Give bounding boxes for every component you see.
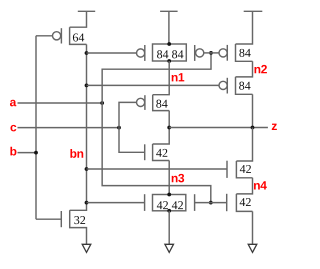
wire nmos pair source to ground: [168, 211, 170, 244]
wire a to top-right pmos bubble: [211, 52, 219, 54]
wire n1 to middle pmos source: [153, 61, 170, 95]
value 42 (bottom right): [240, 198, 251, 206]
nmos 32 gate wire: [36, 218, 61, 220]
value 84 84: [157, 50, 168, 58]
junction nmos pair drain: [167, 193, 171, 197]
middle pmos 84 gate bar: [144, 95, 146, 110]
wire middle pmos drain down to z and nmos: [153, 111, 170, 144]
junction b: [34, 151, 38, 155]
pmos 64 gate bubble: [53, 32, 61, 40]
wire a up-route to pmos gates: [102, 53, 211, 103]
nmos 32 gate bar: [60, 211, 62, 227]
junction nmos pair source: [167, 209, 171, 213]
label n4: [254, 181, 267, 189]
junction a nmos gates: [209, 201, 213, 205]
wire a to pmos pair right bubble: [204, 52, 211, 54]
lower-right pmos 84 gate bubble: [219, 81, 227, 89]
junction a: [100, 101, 104, 105]
node b vertical wire: [35, 36, 37, 219]
value 42 42: [157, 201, 168, 209]
junction c: [117, 126, 121, 130]
pmos pair 84-84 left gate bar: [144, 45, 146, 61]
wire b input: [18, 152, 37, 154]
pmos 64 channel (inverter pull-up): [70, 27, 87, 44]
value 42 (middle): [156, 149, 167, 157]
wire a to nmos pair right gate: [195, 202, 211, 204]
wire n2: [236, 61, 253, 77]
wire c down-route to middle nmos gate: [119, 128, 145, 153]
VDD rail T (right, above top-right pmos): [236, 11, 263, 44]
nmos 32 channel (inverter pull-down): [70, 210, 87, 244]
VDD rail T (middle, above pmos pair): [160, 11, 178, 44]
junction a pmos gates: [209, 51, 213, 55]
wire lower-right pmos drain to z: [252, 94, 254, 127]
nmos pair 42-42 left gate bar: [144, 194, 146, 211]
bottom-right nmos 42 channel: [236, 194, 252, 212]
junction pair source: [167, 42, 171, 46]
pmos 64 gate wire from b: [36, 35, 52, 37]
nmos pair 42-42 right gate bar: [194, 194, 196, 211]
ground (left): [82, 244, 91, 252]
middle pmos 84 channel: [153, 95, 170, 111]
wire a down-route to nmos gates: [102, 103, 211, 203]
top-right nmos 42 channel: [236, 161, 252, 178]
junction bn to right pmos 84 gate: [85, 84, 89, 88]
junction z left: [167, 126, 171, 130]
ground (right): [248, 244, 257, 252]
label n1: [172, 73, 185, 81]
wire n4: [236, 178, 252, 194]
pmos pair 84-84 right gate bubble: [196, 49, 204, 57]
wire c input: [18, 127, 120, 129]
value 42 (top right): [240, 165, 251, 173]
value 84 (lower right): [239, 82, 250, 90]
wire bn to nmos pair 42-42 left gate: [87, 202, 145, 204]
wire z output: [169, 127, 268, 129]
VDD rail T (left, above inverter PMOS): [70, 11, 96, 27]
wire z down to top-right nmos drain: [236, 128, 252, 162]
top-right nmos 42 gate bar: [226, 161, 228, 178]
value 84 (middle): [156, 100, 167, 108]
pmos 64 gate bar: [60, 28, 62, 43]
middle pmos 84 gate bubble: [137, 98, 145, 106]
value 32: [74, 216, 85, 224]
label n2: [254, 65, 266, 73]
top-right pmos 84 gate bubble: [219, 49, 227, 57]
wire bn to top-right nmos 42 gate: [87, 168, 228, 170]
wire bottom-right nmos source to ground: [252, 211, 254, 244]
top-right pmos 84 gate bar: [226, 45, 228, 61]
value 64: [73, 33, 84, 41]
nmos pair 42-42 channel box: [153, 195, 186, 211]
pmos pair 84-84 left gate bubble: [137, 49, 145, 57]
wire n3 (middle nmos source down to nmos pair): [168, 161, 170, 195]
junction z right: [251, 126, 255, 130]
junction pair drain (n1): [167, 59, 171, 63]
junction bn to 84-84 left gate: [85, 51, 89, 55]
middle nmos 42 gate bar: [144, 144, 146, 160]
label a: [10, 100, 16, 107]
wire bn column (64 drain down to nmos 32 drain): [70, 44, 87, 210]
pmos pair 84-84 right gate bar: [194, 45, 196, 61]
junction bn to top-right nmos 42 gate: [85, 167, 89, 171]
bottom-right nmos 42 gate bar: [226, 194, 228, 211]
wire c up-route to middle pmos gate: [119, 102, 137, 127]
junction bn to nmos pair left gate: [85, 201, 89, 205]
value 84 (top right): [239, 49, 250, 57]
label n3: [172, 174, 184, 183]
wire a input: [18, 102, 103, 104]
ground (middle): [165, 244, 174, 252]
label bn: [70, 149, 83, 158]
pmos pair 84-84 channel box: [153, 44, 187, 61]
middle nmos 42 channel: [153, 144, 170, 161]
lower-right pmos 84 gate bar: [226, 78, 228, 94]
wire bn to lower-right pmos 84 gate: [87, 84, 220, 86]
top-right pmos 84 channel: [236, 44, 253, 61]
wire a to bottom-right nmos gate: [211, 202, 227, 204]
label b: [10, 147, 16, 156]
label z: [272, 124, 277, 130]
wire bn to pmos pair left gate: [87, 52, 137, 54]
lower-right pmos 84 channel: [236, 77, 253, 94]
label c: [10, 125, 16, 132]
